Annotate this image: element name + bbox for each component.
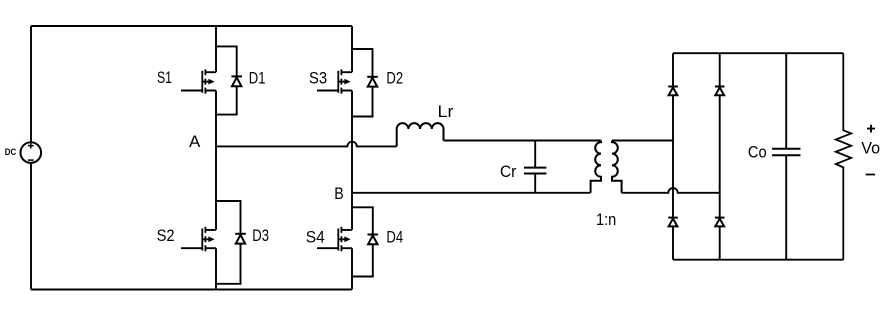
diode D4 <box>368 235 379 245</box>
diode D1 <box>231 76 242 86</box>
transformer T1 secondary winding <box>612 141 622 193</box>
wire left rail upper <box>30 26 32 142</box>
svg-text:S1: S1 <box>157 68 172 87</box>
svg-text:D1: D1 <box>249 69 266 88</box>
diode bridge D6 (top-right) <box>715 87 725 96</box>
transformer T1 primary winding <box>591 141 601 193</box>
wire secondary top lead <box>612 140 673 142</box>
wire S3 source leg to node B <box>351 91 353 193</box>
wire S4 drain leg <box>351 193 353 230</box>
wire left rail lower <box>30 163 32 290</box>
transistor S4 <box>317 227 352 251</box>
label + (Vo plus) <box>867 125 875 133</box>
svg-text:S2: S2 <box>157 226 175 245</box>
wire D3 branch <box>216 201 241 284</box>
wire node B <box>352 192 591 194</box>
wire D4 branch <box>352 207 373 276</box>
resistor R load <box>836 53 851 260</box>
transistor S2 <box>181 227 216 251</box>
wire rectifier top rail <box>673 52 843 54</box>
svg-text:DC: DC <box>5 147 17 157</box>
wire S4 source leg <box>351 248 353 289</box>
svg-text:A: A <box>189 132 201 151</box>
svg-text:D3: D3 <box>252 226 269 245</box>
diode bridge D8 (bottom-right) <box>715 218 725 227</box>
wire top rail <box>31 25 352 27</box>
wire S1 source leg to node A <box>215 91 217 147</box>
svg-text:D2: D2 <box>386 69 403 88</box>
wire S2 drain leg <box>215 146 217 230</box>
svg-text:D4: D4 <box>386 227 403 246</box>
wire rectifier leg 1 <box>672 53 674 260</box>
svg-text:1:n: 1:n <box>596 210 616 229</box>
svg-text:Lr: Lr <box>438 102 454 121</box>
wire rectifier leg 2 <box>719 53 721 260</box>
wire node A with hop over S3 leg <box>216 142 397 147</box>
diode D3 <box>235 234 246 244</box>
svg-text:Co: Co <box>748 143 767 162</box>
wire D2 branch <box>352 49 373 117</box>
wire S1 drain leg <box>215 26 217 72</box>
dc source Vdc <box>21 142 42 163</box>
diode bridge D5 (top-left) <box>668 87 678 96</box>
capacitor Co <box>772 53 800 260</box>
wire S3 drain leg <box>351 26 353 72</box>
transistor S1 <box>181 69 216 93</box>
capacitor Cr <box>524 141 546 193</box>
svg-text:Vo: Vo <box>861 139 880 158</box>
wire secondary bottom lead with hop over rectifier left leg <box>622 188 720 193</box>
wire Lr to transformer primary top <box>444 140 602 142</box>
diode bridge D7 (bottom-left) <box>668 218 678 227</box>
wire D1 branch <box>216 46 237 114</box>
svg-text:S4: S4 <box>306 227 325 246</box>
label minus (Vo minus) <box>866 174 875 176</box>
wire bottom rail <box>31 289 352 291</box>
transistor S3 <box>317 69 352 93</box>
svg-text:S3: S3 <box>309 69 327 88</box>
inductor Lr <box>397 123 444 146</box>
wire S2 source leg <box>215 248 217 289</box>
svg-text:B: B <box>334 184 344 203</box>
wire rectifier bottom rail <box>673 259 843 261</box>
diode D2 <box>367 77 378 87</box>
svg-text:Cr: Cr <box>500 162 517 181</box>
